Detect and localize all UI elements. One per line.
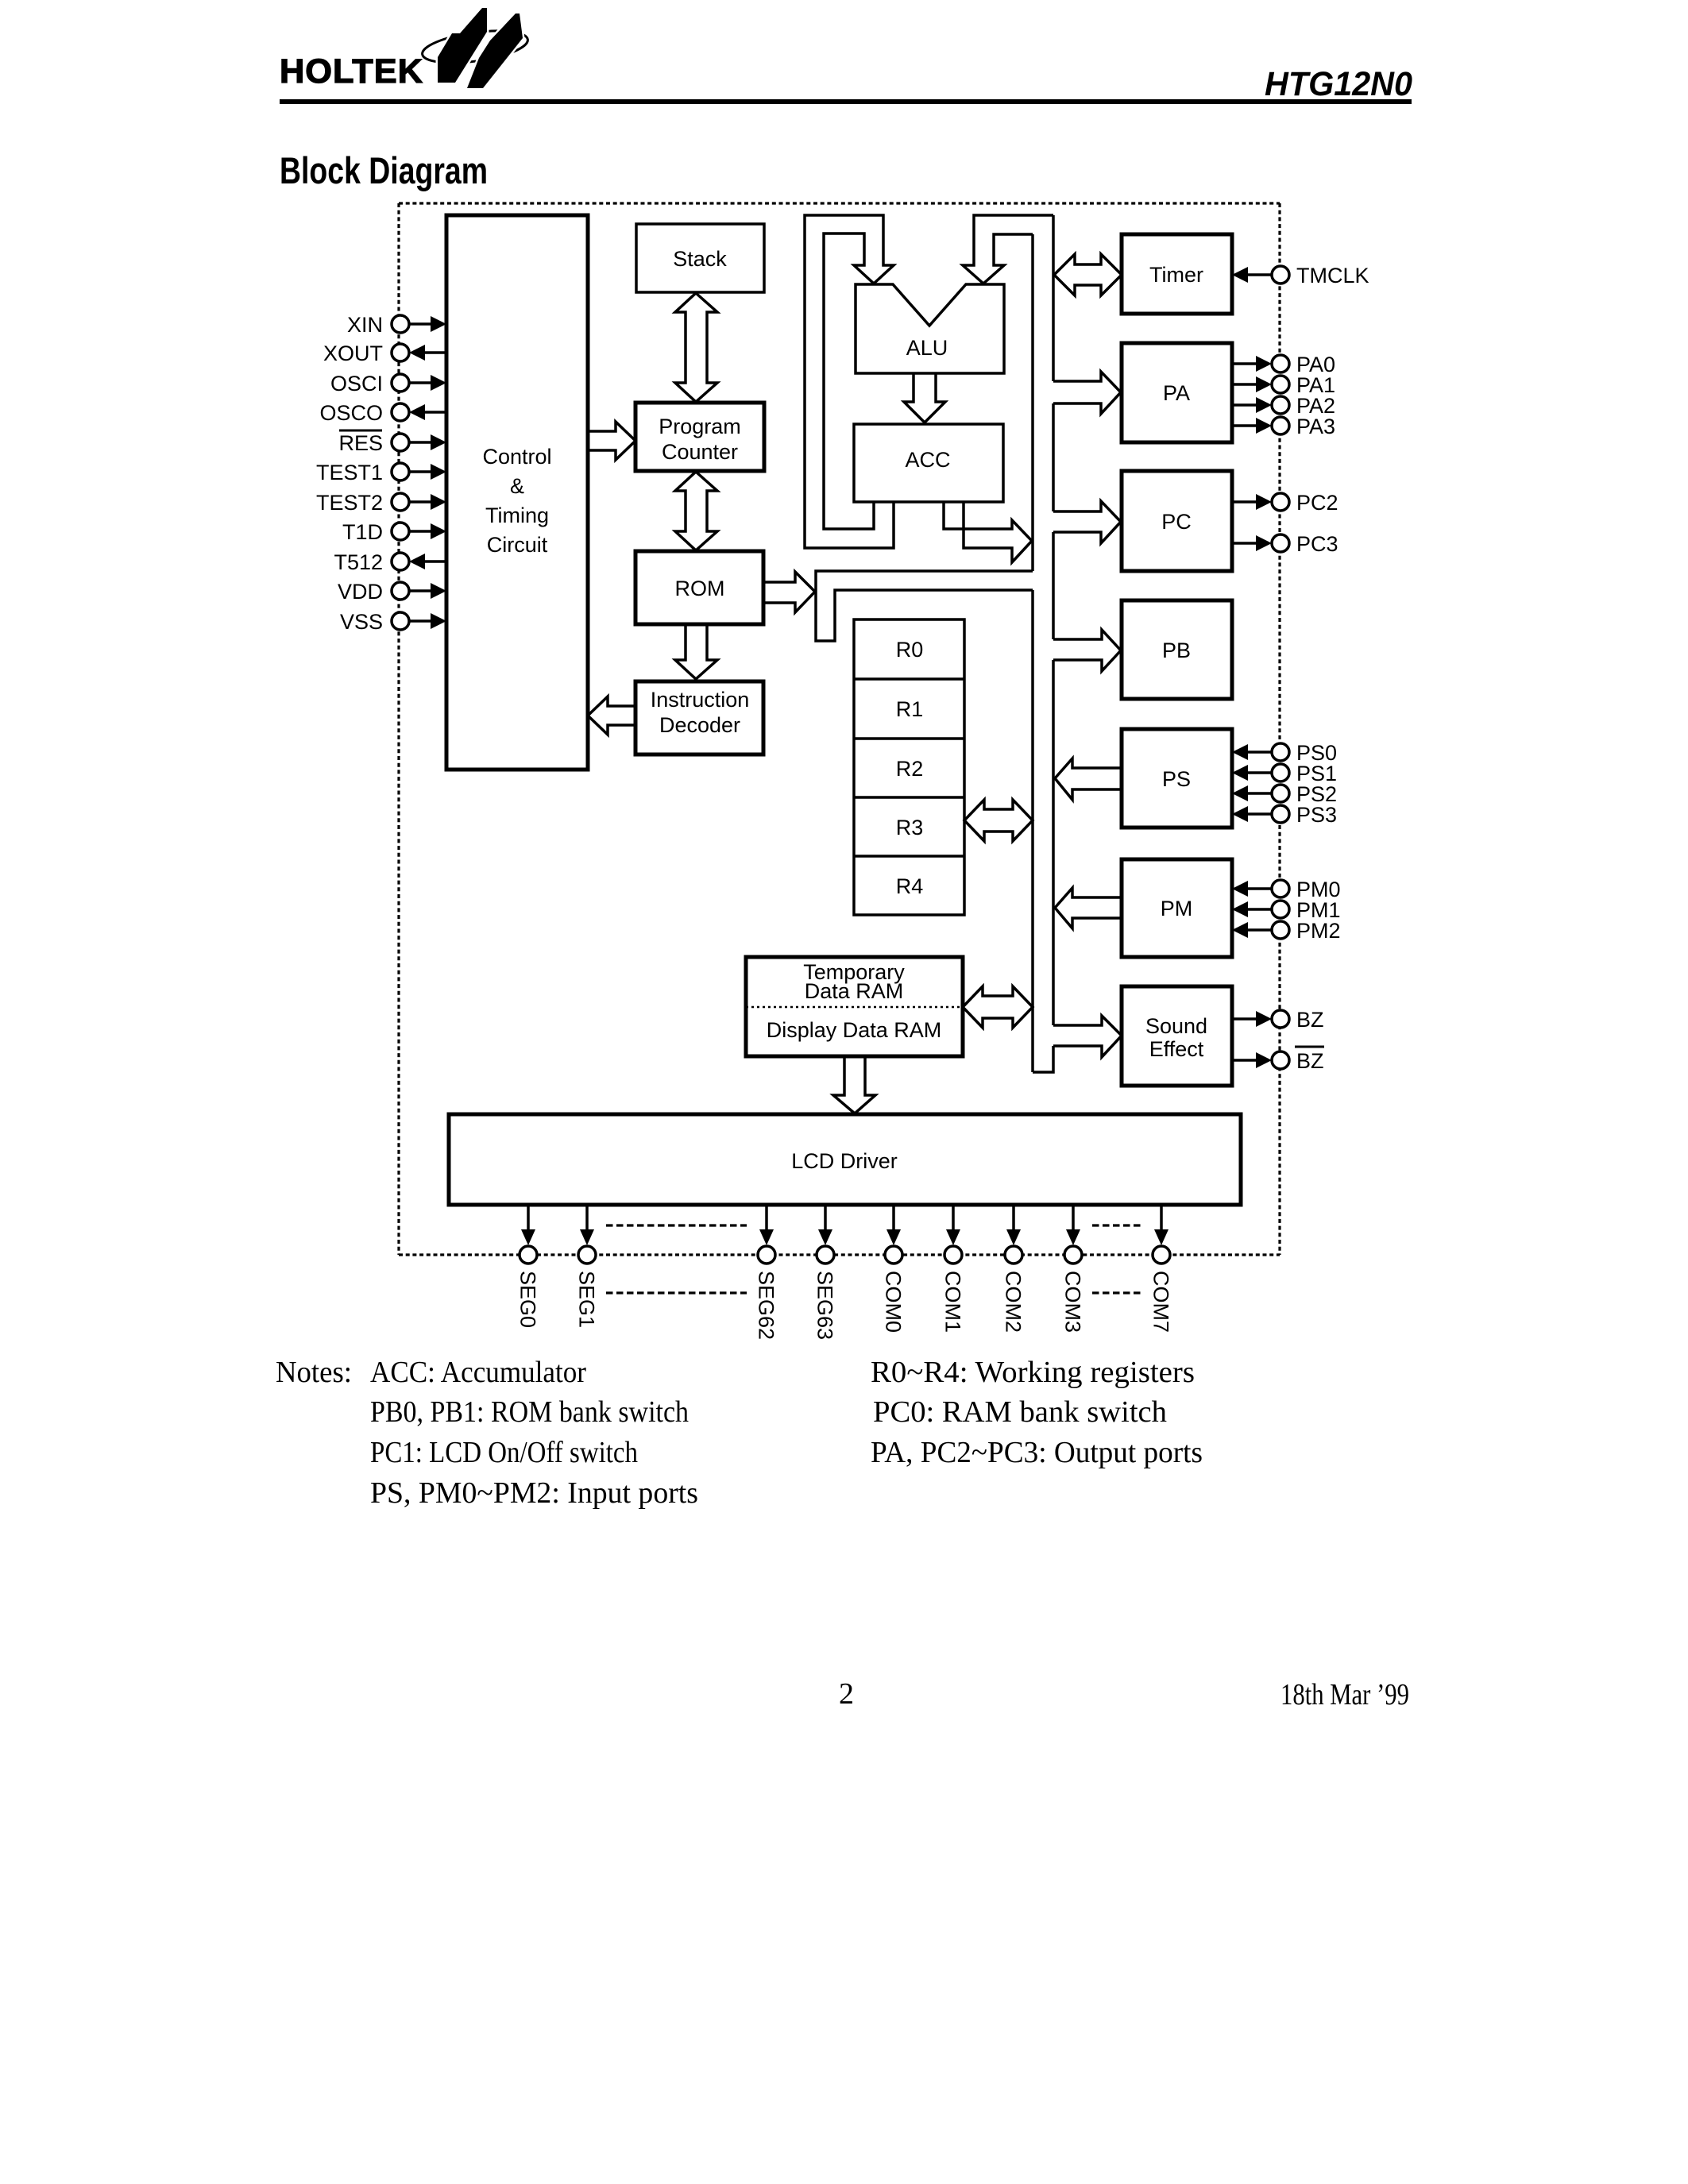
wire dashed continuation SEG1-SEG62 (label row)	[606, 1291, 747, 1294]
wire registers-bus double arrow	[964, 800, 1033, 841]
block LCD Driver	[449, 1114, 1241, 1205]
pin PS0	[1232, 741, 1337, 765]
svg-text:2: 2	[839, 1677, 854, 1711]
svg-text:Decoder: Decoder	[659, 713, 740, 737]
svg-text:TMCLK: TMCLK	[1296, 264, 1369, 287]
block Sound Effect	[1122, 986, 1232, 1086]
logo HOLTEK wordmark	[280, 52, 423, 91]
svg-text:COM1: COM1	[941, 1271, 965, 1333]
pin BZ	[1232, 1008, 1324, 1032]
logo Holtek symbol (ellipse + two flash bars)	[420, 8, 530, 88]
svg-text:OSCI: OSCI	[330, 372, 383, 396]
wire ACC feedback loop to ALU left input	[805, 215, 894, 548]
svg-text:ACC: Accumulator: ACC: Accumulator	[370, 1356, 586, 1389]
dashed boundary rectangle	[399, 203, 1280, 1255]
svg-text:PC0: RAM bank switch: PC0: RAM bank switch	[873, 1395, 1167, 1429]
svg-text:R2: R2	[896, 757, 924, 781]
node SEG63	[813, 1205, 837, 1340]
svg-text:PB: PB	[1162, 639, 1191, 662]
svg-text:HTG12N0: HTG12N0	[1265, 65, 1412, 103]
title HTG12N0	[1265, 65, 1412, 103]
block ROM	[635, 551, 763, 624]
pin PA3	[1232, 415, 1335, 438]
pin VDD	[338, 580, 446, 604]
svg-text:PS3: PS3	[1296, 803, 1337, 827]
node COM0	[882, 1205, 906, 1333]
wire Timer-bus double arrow	[1054, 254, 1122, 295]
svg-text:R3: R3	[896, 816, 924, 839]
svg-text:R0~R4: Working registers: R0~R4: Working registers	[871, 1356, 1195, 1389]
svg-text:VDD: VDD	[338, 580, 383, 604]
wire RAM-bus double arrow	[963, 986, 1033, 1028]
svg-text:Data RAM: Data RAM	[805, 979, 904, 1003]
svg-text:&: &	[510, 474, 524, 498]
svg-text:RES: RES	[338, 431, 383, 455]
wire main bus right line and bottom cap	[1033, 215, 1053, 1072]
wire Instruction Decoder to Control arrow	[588, 696, 635, 735]
notes text	[276, 1356, 1203, 1510]
pin PA0	[1232, 353, 1335, 376]
block Stack	[636, 224, 764, 292]
pin PS3	[1232, 803, 1337, 827]
svg-text:COM2: COM2	[1002, 1271, 1026, 1333]
block Instruction Decoder	[635, 681, 763, 754]
block Control & Timing Circuit	[446, 215, 588, 770]
svg-text:TEST2: TEST2	[316, 491, 383, 515]
svg-text:18th Mar ’99: 18th Mar ’99	[1280, 1678, 1409, 1711]
svg-text:PB0, PB1: ROM bank switch: PB0, PB1: ROM bank switch	[370, 1395, 689, 1429]
svg-text:COM3: COM3	[1061, 1271, 1085, 1333]
svg-text:PS: PS	[1162, 767, 1191, 791]
svg-text:ROM: ROM	[675, 577, 725, 600]
svg-text:XOUT: XOUT	[323, 341, 383, 365]
pin PM1	[1232, 898, 1341, 922]
svg-text:LCD Driver: LCD Driver	[791, 1149, 898, 1173]
wire PM to bus arrow	[1055, 888, 1122, 928]
node COM7	[1149, 1205, 1173, 1333]
pin PS1	[1232, 762, 1337, 785]
pin VSS	[340, 610, 446, 634]
svg-text:VSS: VSS	[340, 610, 383, 634]
wire Control to Program Counter arrow	[589, 422, 635, 460]
svg-text:COM7: COM7	[1149, 1271, 1173, 1333]
wire RAM to LCD Driver arrow	[833, 1057, 875, 1113]
pin OSCI	[330, 372, 446, 396]
svg-text:Counter: Counter	[662, 440, 738, 464]
wire dashed continuation COM3-COM7 (arrow row)	[1092, 1224, 1141, 1226]
svg-text:Notes:: Notes:	[276, 1356, 352, 1389]
svg-text:Display Data RAM: Display Data RAM	[767, 1018, 942, 1042]
svg-text:ALU: ALU	[906, 336, 948, 360]
wire ACC output arrow to bus	[944, 503, 1032, 562]
block PA	[1122, 343, 1232, 442]
wire bus top loop to ALU right input	[963, 215, 1053, 284]
pin PM2	[1232, 919, 1341, 943]
svg-text:SEG1: SEG1	[575, 1271, 599, 1328]
node SEG0	[516, 1205, 540, 1328]
svg-text:HOLTEK: HOLTEK	[280, 52, 423, 91]
pin TEST2	[316, 491, 446, 515]
heading Block Diagram	[280, 149, 488, 191]
pin PA2	[1232, 394, 1335, 418]
svg-text:COM0: COM0	[882, 1271, 906, 1333]
block ACC	[854, 424, 1003, 502]
block PM	[1122, 859, 1232, 957]
wire ROM output block arrow	[764, 572, 815, 612]
svg-text:Instruction: Instruction	[651, 688, 750, 712]
block Temporary Data RAM / Display Data RAM	[746, 957, 963, 1056]
wire bus to Sound Effect arrow	[1053, 1016, 1122, 1057]
wire dashed continuation SEG1-SEG62 (arrow row)	[606, 1224, 747, 1226]
svg-text:ACC: ACC	[905, 448, 950, 472]
pin TEST1	[316, 461, 446, 484]
svg-text:PC: PC	[1161, 510, 1192, 534]
pin RES (active low)	[338, 430, 446, 455]
pin XIN	[347, 313, 446, 337]
wire ProgramCounter-ROM double arrow	[675, 472, 717, 550]
svg-text:PM2: PM2	[1296, 919, 1341, 943]
svg-text:Timer: Timer	[1149, 263, 1203, 287]
svg-text:R1: R1	[896, 697, 924, 721]
svg-text:Block Diagram: Block Diagram	[280, 149, 488, 191]
wire ROM output channel to bus	[816, 571, 1033, 641]
wire dashed continuation COM3-COM7 (label row)	[1092, 1291, 1141, 1294]
block Program Counter	[635, 403, 764, 471]
svg-text:PA, PC2~PC3: Output ports: PA, PC2~PC3: Output ports	[871, 1436, 1203, 1469]
svg-text:R4: R4	[896, 874, 924, 898]
pin T1D	[342, 520, 446, 544]
pin T512	[334, 550, 446, 574]
pin PA1	[1232, 373, 1335, 397]
pin XOUT	[323, 341, 446, 365]
pin PC2	[1232, 491, 1338, 515]
node COM3	[1061, 1205, 1085, 1333]
wire ROM to Instruction Decoder arrow	[675, 625, 717, 679]
svg-text:Program: Program	[659, 415, 741, 438]
pin PS2	[1232, 782, 1337, 806]
svg-text:PM: PM	[1161, 897, 1193, 920]
wire bus to PB arrow	[1053, 630, 1121, 671]
block PB	[1122, 600, 1232, 699]
svg-text:SEG62: SEG62	[755, 1271, 778, 1340]
node COM1	[941, 1205, 965, 1333]
pin BZ (active low)	[1232, 1047, 1324, 1073]
pin OSCO	[319, 401, 446, 425]
wire ALU to ACC arrow	[904, 374, 945, 423]
svg-text:BZ: BZ	[1296, 1049, 1324, 1073]
svg-text:PC1: LCD On/Off switch: PC1: LCD On/Off switch	[370, 1436, 638, 1469]
svg-text:PA: PA	[1163, 381, 1190, 405]
wire Stack-ProgramCounter double arrow	[675, 293, 717, 402]
svg-text:Control: Control	[482, 445, 551, 469]
svg-text:Sound: Sound	[1145, 1014, 1207, 1038]
svg-text:PA3: PA3	[1296, 415, 1335, 438]
block Timer	[1122, 234, 1232, 314]
wire bus to PA arrow	[1053, 372, 1121, 414]
svg-text:SEG0: SEG0	[516, 1271, 540, 1328]
node SEG1	[575, 1205, 599, 1328]
pin PM0	[1232, 878, 1341, 901]
svg-text:R0: R0	[896, 638, 924, 662]
svg-text:T1D: T1D	[342, 520, 383, 544]
node COM2	[1002, 1205, 1026, 1333]
block ALU	[856, 284, 1004, 373]
pin TMCLK	[1232, 264, 1369, 287]
wire main bus left line	[1031, 234, 1034, 1072]
svg-text:SEG63: SEG63	[813, 1271, 837, 1340]
wire bus to PC arrow	[1053, 501, 1121, 543]
block working registers R0-R4	[854, 619, 964, 915]
pin PC3	[1232, 532, 1338, 556]
header rule	[280, 99, 1412, 104]
svg-text:Stack: Stack	[673, 247, 727, 271]
svg-text:PS, PM0~PM2: Input ports: PS, PM0~PM2: Input ports	[370, 1476, 698, 1510]
svg-text:PC3: PC3	[1296, 532, 1338, 556]
block PC port	[1122, 471, 1232, 571]
svg-text:OSCO: OSCO	[319, 401, 383, 425]
svg-text:TEST1: TEST1	[316, 461, 383, 484]
svg-text:Circuit: Circuit	[487, 533, 548, 557]
block PS	[1122, 729, 1232, 828]
wire PS to bus arrow	[1055, 758, 1122, 800]
svg-text:XIN: XIN	[347, 313, 383, 337]
svg-text:Effect: Effect	[1149, 1037, 1204, 1061]
svg-text:Timing: Timing	[485, 504, 549, 527]
svg-text:PC2: PC2	[1296, 491, 1338, 515]
svg-text:BZ: BZ	[1296, 1008, 1324, 1032]
node SEG62	[755, 1205, 778, 1340]
svg-text:T512: T512	[334, 550, 383, 574]
